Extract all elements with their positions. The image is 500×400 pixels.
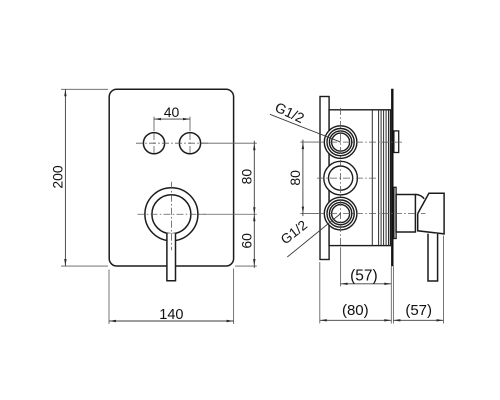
svg-text:80: 80	[287, 170, 303, 186]
wall line	[391, 89, 393, 267]
port middle	[324, 161, 358, 195]
valve body	[329, 110, 390, 246]
ext handle right down	[443, 236, 445, 324]
centerline button right vertical	[189, 133, 191, 154]
centerline handle horizontal	[138, 213, 207, 215]
body rib lines	[372, 110, 388, 246]
wall connection tab	[394, 131, 399, 153]
handle rosette inner circle	[152, 195, 191, 234]
handle boss arc	[415, 194, 424, 198]
dim line 80/60	[253, 141, 255, 268]
G1/2 label bottom	[278, 214, 341, 257]
centerline port bottom / handle axis	[317, 213, 426, 215]
dim line 140	[109, 320, 234, 322]
centerline ports vertical	[340, 108, 342, 248]
ext lines 40	[153, 117, 155, 131]
centerline button left vertical	[153, 133, 155, 154]
port G1/2 top	[324, 126, 357, 159]
handle stem	[396, 195, 415, 233]
leader top	[270, 114, 341, 142]
svg-text:200: 200	[50, 165, 66, 189]
centerlines front	[136, 133, 208, 250]
side escutcheon plate	[320, 97, 329, 260]
svg-text:40: 40	[164, 104, 180, 120]
port G1/2 bottom	[324, 197, 357, 230]
centerline buttons horizontal	[136, 142, 208, 144]
front plate	[109, 89, 233, 266]
ext lines 140	[108, 270, 110, 325]
arrows side 80	[302, 142, 304, 149]
centerline port middle horizontal	[317, 177, 376, 179]
G1/2 label top	[270, 99, 341, 142]
handle rosette outer circle	[145, 188, 198, 241]
centerline port top horizontal	[317, 141, 404, 143]
centerlines side	[317, 108, 426, 248]
ext lines 200	[61, 88, 108, 90]
dim line 200	[64, 89, 66, 266]
arrows 200	[64, 89, 66, 96]
svg-text:140: 140	[159, 307, 183, 323]
arrows 40	[154, 118, 161, 120]
arrows (80)	[320, 319, 327, 321]
button circle right	[179, 133, 200, 154]
svg-text:(57): (57)	[405, 302, 432, 319]
ext wall line down	[390, 266, 392, 323]
svg-text:(80): (80)	[342, 302, 369, 319]
lever handle front	[167, 233, 176, 280]
ext lines side 80	[300, 141, 318, 143]
ext plate left down	[319, 262, 321, 324]
svg-text:(57): (57)	[350, 267, 378, 284]
leader bottom	[287, 214, 340, 257]
handle lever body	[418, 193, 444, 234]
arrows (57) top	[341, 283, 348, 285]
handle grip bar	[428, 234, 438, 281]
svg-text:60: 60	[239, 233, 255, 249]
arrows 140	[109, 320, 116, 322]
dim line side 80	[302, 140, 304, 217]
arrows (57) bottom	[393, 319, 400, 321]
arrows 80/60	[253, 143, 255, 150]
svg-text:80: 80	[239, 169, 255, 185]
button circle left	[143, 133, 164, 154]
ext circles centerline down to (57)	[340, 248, 342, 286]
port circles	[324, 126, 358, 230]
dim line (57) bottom	[393, 319, 443, 321]
handle nut flange	[394, 187, 396, 238]
centerline handle vertical	[170, 182, 172, 251]
dim line (80)	[320, 319, 392, 321]
dim line (57) top	[341, 283, 392, 285]
dim line 40	[154, 118, 190, 120]
ext lines 80/60 right	[202, 142, 257, 144]
